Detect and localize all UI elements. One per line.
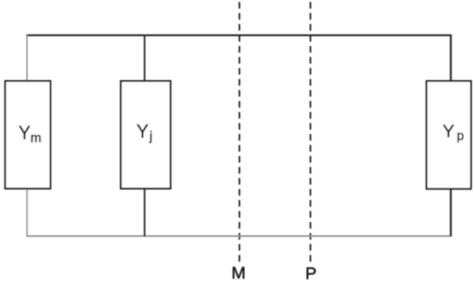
svg-text:M: M [232,264,246,283]
svg-text:P: P [305,264,316,283]
